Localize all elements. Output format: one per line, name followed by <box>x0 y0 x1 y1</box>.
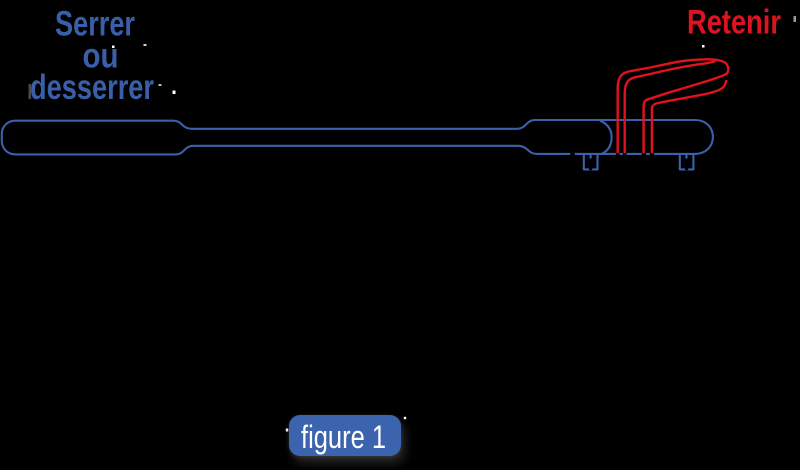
lever second edge <box>625 61 716 153</box>
label Serrer ou desserrer <box>30 5 154 108</box>
lever lower edge <box>652 80 726 153</box>
lever outer edge + tip + inner return edge <box>618 59 729 153</box>
figure 1 badge <box>289 415 401 456</box>
inner head arc <box>600 121 612 154</box>
foot right <box>680 154 694 170</box>
wrench body outline <box>2 120 713 169</box>
svg-text:figure 1: figure 1 <box>301 419 386 455</box>
foot left <box>584 154 598 170</box>
gaps in bottom edge <box>570 152 688 170</box>
red lever <box>618 59 729 153</box>
